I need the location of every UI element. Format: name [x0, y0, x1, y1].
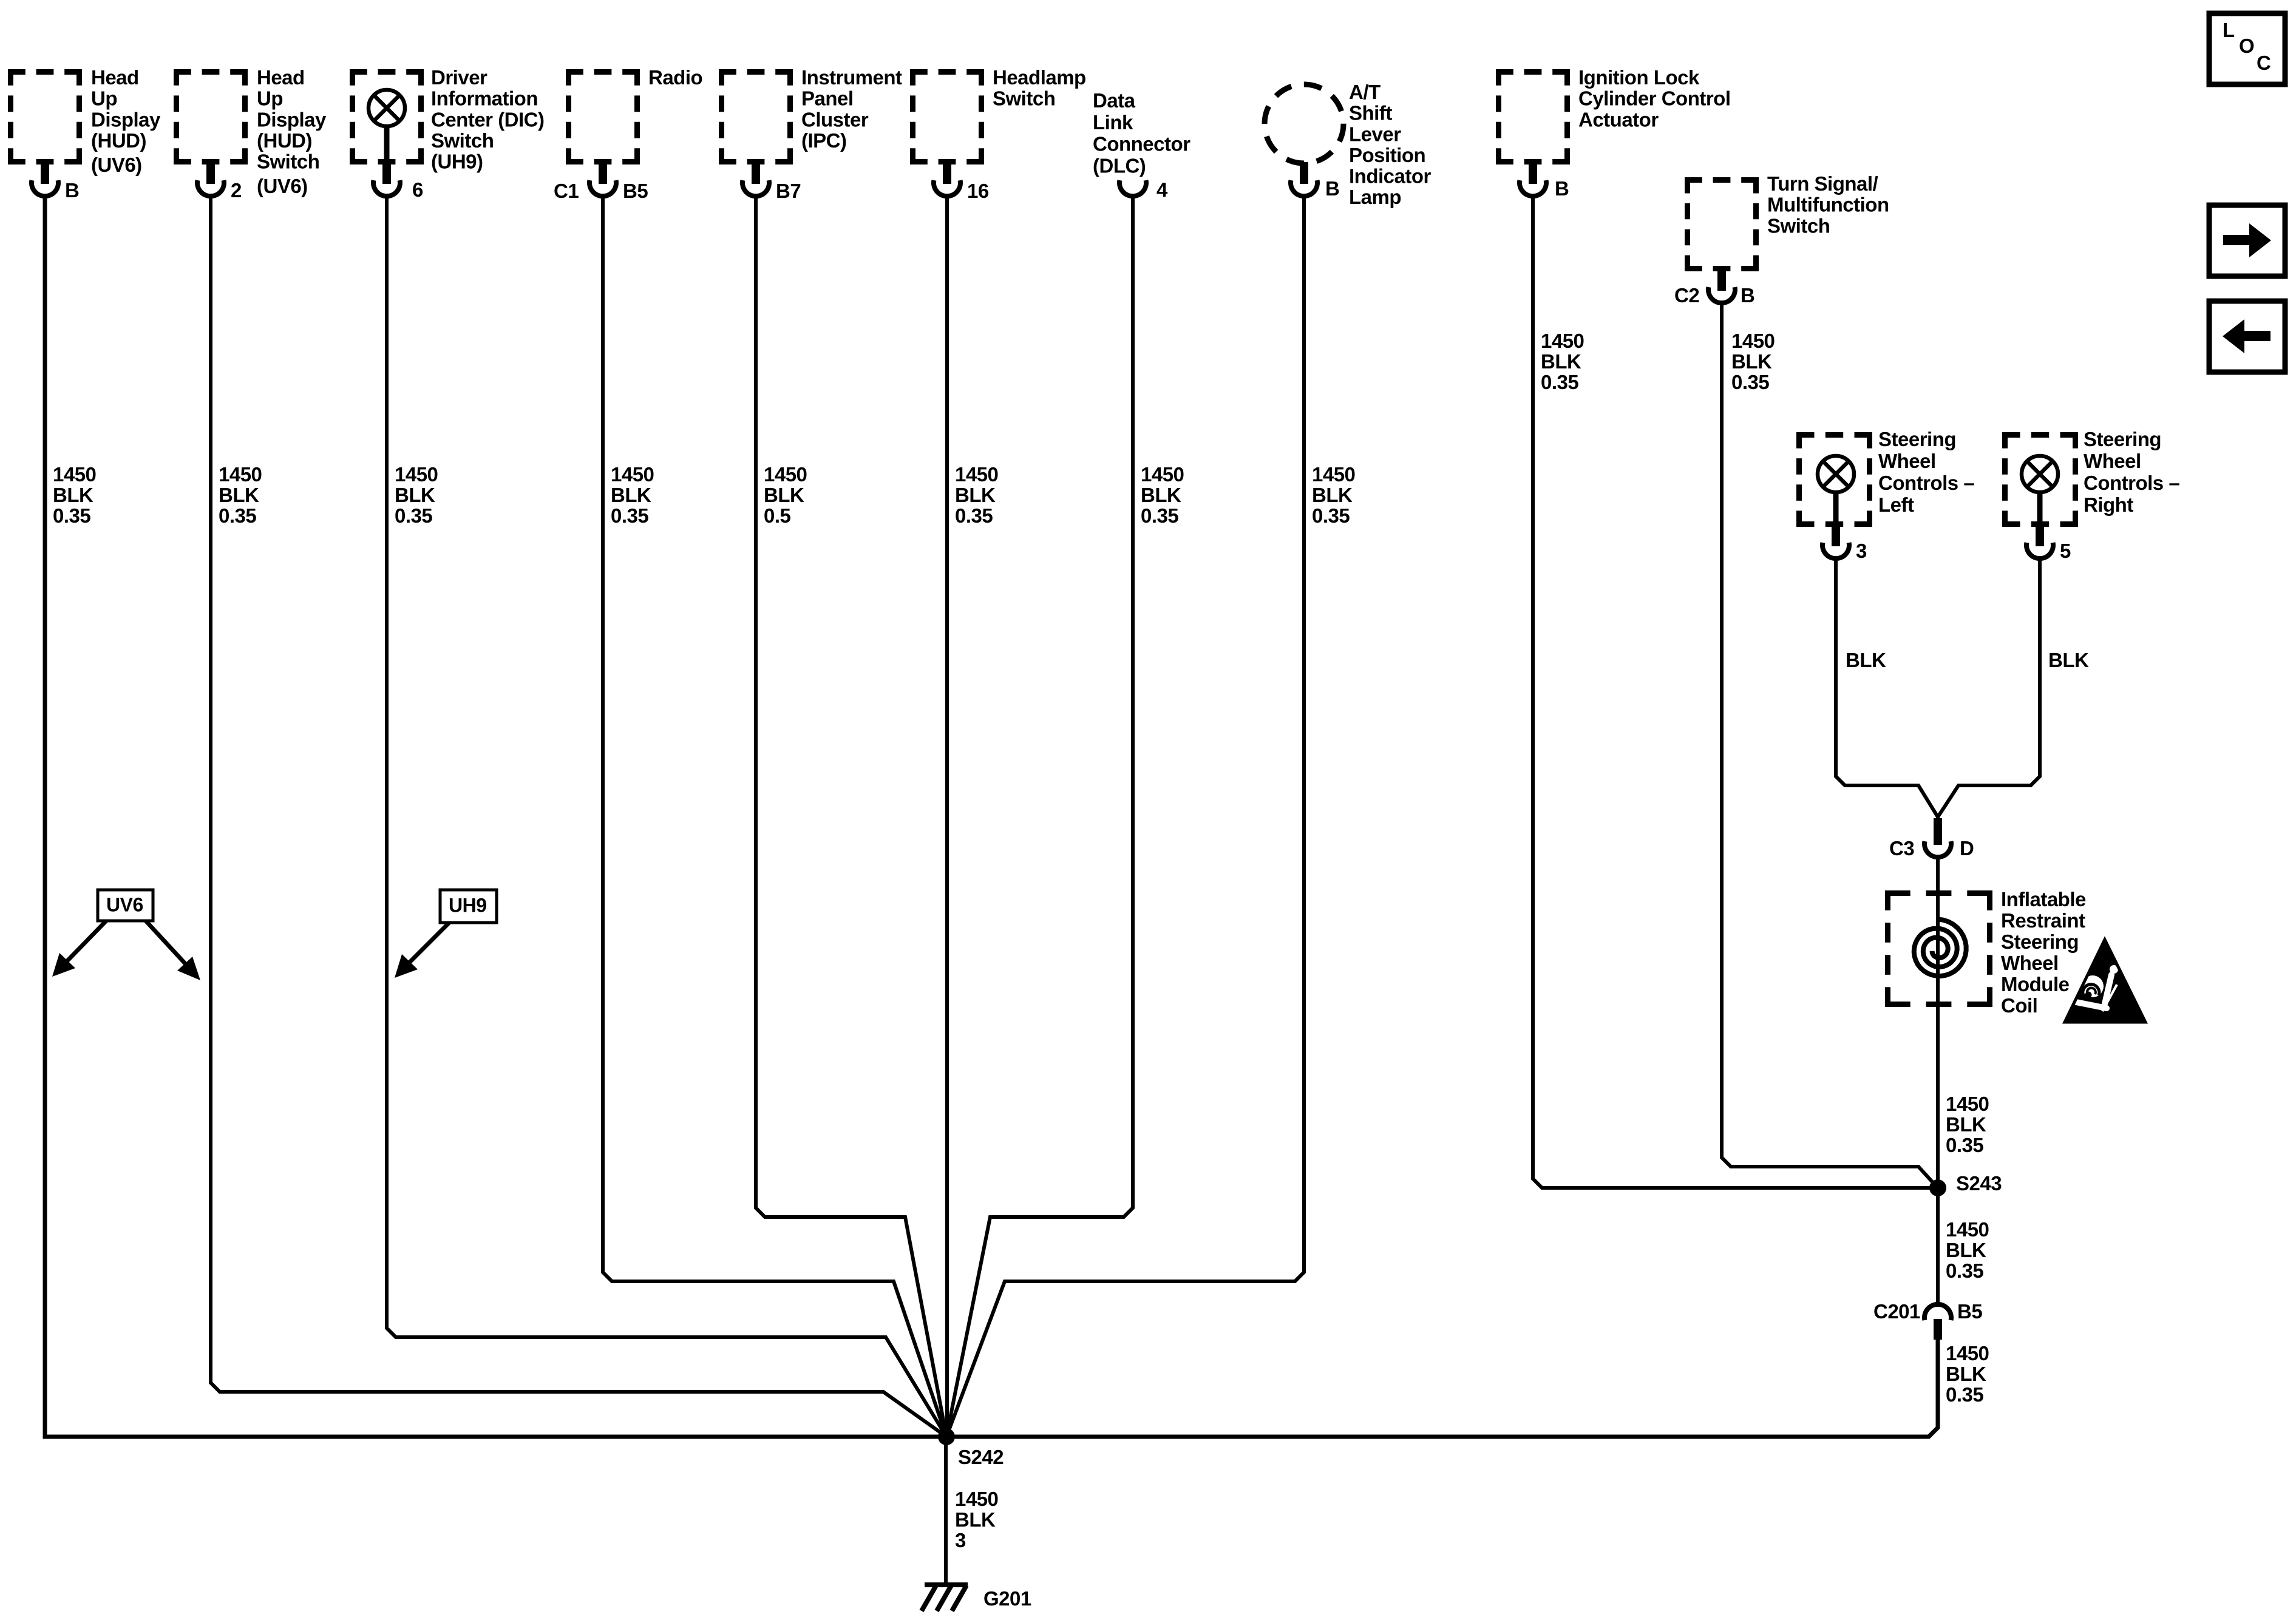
svg-text:Turn Signal/: Turn Signal/ — [1767, 172, 1878, 195]
svg-text:B5: B5 — [1957, 1300, 1982, 1323]
pin B of Ignition Lock — [1520, 160, 1546, 196]
pin label B — [65, 179, 79, 202]
svg-text:(HUD): (HUD) — [257, 129, 312, 152]
svg-text:1450: 1450 — [1312, 463, 1355, 486]
callout arrow UV6 to HUD wire — [52, 921, 106, 977]
pin 3 of left steering controls — [1822, 523, 1849, 558]
svg-text:Actuator: Actuator — [1578, 108, 1659, 131]
svg-text:1450: 1450 — [219, 463, 262, 486]
right arrow navigation box — [2209, 205, 2285, 276]
wire: DIC Switch pin 6 to S242 — [387, 197, 946, 1437]
pin label 16 — [967, 180, 989, 202]
svg-text:0.35: 0.35 — [1731, 371, 1769, 393]
svg-text:1450: 1450 — [955, 1488, 998, 1510]
svg-text:Wheel: Wheel — [1878, 450, 1936, 472]
wire label 1450 BLK 0.35 (DIC) — [395, 463, 438, 527]
svg-text:Up: Up — [91, 87, 117, 110]
svg-text:(UV6): (UV6) — [91, 154, 142, 176]
svg-text:5: 5 — [2060, 540, 2071, 562]
wire label 1450 BLK 0.35 (HUD switch) — [219, 463, 262, 527]
pin 4 of DLC — [1119, 180, 1146, 196]
pin C2-B of Turn Signal Switch — [1708, 267, 1735, 303]
wire label 1450 BLK 0.35 (Headlamp) — [955, 463, 998, 527]
callout box UV6 — [98, 890, 153, 921]
svg-text:1450: 1450 — [955, 463, 998, 486]
callout box UH9 — [440, 890, 497, 923]
svg-text:Up: Up — [257, 87, 283, 110]
svg-text:C2: C2 — [1674, 284, 1699, 307]
component box: Inflatable Restraint Steering Wheel Module Coil — [1885, 890, 1992, 1007]
pin 2 of HUD Switch — [197, 160, 224, 196]
LOC reference box — [2209, 13, 2285, 84]
svg-text:Cluster: Cluster — [801, 108, 869, 131]
svg-text:Connector: Connector — [1093, 133, 1190, 155]
svg-text:Wheel: Wheel — [2084, 450, 2141, 472]
pin label B — [1741, 284, 1754, 307]
svg-text:Position: Position — [1349, 144, 1425, 166]
lamp: A/T Shift Lever Position Indicator Lamp (dashed circle) — [1265, 84, 1343, 163]
svg-text:Indicator: Indicator — [1349, 165, 1432, 188]
wire label 1450 BLK 0.35 (Radio) — [611, 463, 654, 527]
svg-text:Switch: Switch — [431, 129, 494, 152]
svg-text:0.35: 0.35 — [395, 504, 432, 527]
svg-text:G201: G201 — [983, 1587, 1031, 1610]
svg-text:1450: 1450 — [1731, 330, 1775, 352]
pin label B5 — [623, 180, 648, 202]
pin label 4 — [1156, 178, 1168, 201]
svg-text:16: 16 — [967, 180, 989, 202]
callout arrow UV6 to HUD switch wire — [146, 921, 200, 980]
svg-text:B: B — [65, 179, 79, 202]
svg-text:BLK: BLK — [1312, 484, 1353, 506]
pin 6 of DIC switch — [373, 160, 400, 196]
ground G201 — [922, 1585, 968, 1611]
svg-text:Controls –: Controls – — [2084, 472, 2179, 494]
label Steering Wheel Controls - Left — [1878, 428, 1974, 516]
svg-text:(UV6): (UV6) — [257, 175, 308, 197]
svg-text:Controls –: Controls – — [1878, 472, 1974, 494]
svg-text:BLK: BLK — [219, 484, 259, 506]
pin label 5 — [2060, 540, 2071, 562]
svg-text:L: L — [2223, 19, 2235, 41]
label Radio — [648, 66, 702, 89]
label Steering Wheel Controls - Right — [2084, 428, 2179, 516]
svg-text:0.35: 0.35 — [1946, 1383, 1983, 1406]
wire label 1450 BLK 0.5 (IPC) — [764, 463, 807, 527]
svg-text:BLK: BLK — [1141, 484, 1181, 506]
svg-text:Cylinder Control: Cylinder Control — [1578, 87, 1731, 110]
lamp symbol inside left steering controls — [1818, 456, 1854, 527]
svg-text:Inflatable: Inflatable — [2001, 888, 2086, 910]
pin label B — [1325, 177, 1339, 200]
svg-text:1450: 1450 — [1946, 1342, 1989, 1364]
svg-text:6: 6 — [412, 178, 423, 201]
svg-text:0.35: 0.35 — [1946, 1134, 1983, 1156]
label A/T Shift Lever Position Indicator Lamp — [1349, 81, 1432, 208]
wire label 1450 BLK 0.35 (DLC) — [1141, 463, 1184, 527]
svg-text:2: 2 — [231, 179, 242, 202]
svg-text:BLK: BLK — [395, 484, 435, 506]
svg-text:C3: C3 — [1889, 837, 1914, 859]
wire: C201-B5 down and left along bus to S242 — [946, 1338, 1938, 1437]
wire: C3-D through coil module to S243 — [1936, 858, 1940, 1188]
svg-text:BLK: BLK — [2048, 649, 2089, 671]
lamp symbol inside right steering controls — [2022, 456, 2058, 527]
svg-text:Steering: Steering — [2084, 428, 2161, 450]
wire: S242 to ground G201 — [944, 1437, 948, 1585]
wire label 1450 BLK 0.35 (coil to S243) — [1946, 1093, 1989, 1156]
svg-text:0.35: 0.35 — [53, 504, 90, 527]
svg-text:1450: 1450 — [611, 463, 654, 486]
pin label C2 — [1674, 284, 1699, 307]
wire label BLK (left steering wire) — [1846, 649, 1886, 671]
svg-text:Restraint: Restraint — [2001, 909, 2085, 932]
svg-text:Coil: Coil — [2001, 994, 2037, 1017]
pin B7 of IPC — [742, 160, 769, 196]
pin label C1 — [554, 180, 579, 202]
svg-text:BLK: BLK — [53, 484, 93, 506]
svg-text:BLK: BLK — [1731, 350, 1772, 373]
svg-text:Display: Display — [257, 108, 327, 131]
connector box: Ignition Lock Cylinder Control Actuator — [1496, 69, 1570, 164]
svg-text:Multifunction: Multifunction — [1767, 194, 1889, 216]
label Driver Information Center (DIC) Switch (UH9) — [431, 66, 545, 172]
wire: S243 to C201 — [1936, 1188, 1940, 1303]
wire label 1450 BLK 0.35 (Turn signal) — [1731, 330, 1775, 393]
svg-text:C201: C201 — [1873, 1300, 1920, 1323]
connector box: Driver Information Center (DIC) Switch (UH9) — [350, 69, 424, 164]
label G201 — [983, 1587, 1031, 1610]
svg-text:Left: Left — [1878, 493, 1914, 516]
svg-text:Steering: Steering — [1878, 428, 1956, 450]
wire: HUD Switch pin 2 to S242 — [211, 197, 946, 1437]
svg-text:Radio: Radio — [648, 66, 702, 89]
pin label B5 — [1957, 1300, 1982, 1323]
svg-text:Shift: Shift — [1349, 102, 1392, 124]
wire: Radio B5 to S242 — [603, 197, 946, 1437]
label S243 — [1956, 1172, 2002, 1195]
connector box: Radio — [566, 69, 640, 164]
svg-text:Switch: Switch — [993, 87, 1055, 110]
svg-text:BLK: BLK — [1946, 1113, 1986, 1136]
wire: Y merge into connector C3 — [1936, 816, 1940, 821]
svg-text:B5: B5 — [623, 180, 648, 202]
svg-text:BLK: BLK — [955, 484, 996, 506]
wire label 1450 BLK 0.35 (S243 to C201) — [1946, 1218, 1989, 1282]
wire: IPC B7 to S242 — [756, 197, 946, 1437]
svg-text:UH9: UH9 — [449, 894, 487, 916]
connector box: Steering Wheel Controls - Left — [1796, 432, 1872, 527]
pin 16 of Headlamp Switch — [934, 160, 960, 196]
svg-text:BLK: BLK — [1946, 1363, 1986, 1385]
svg-text:C1: C1 — [554, 180, 579, 202]
label S242 — [958, 1446, 1004, 1468]
svg-text:Information: Information — [431, 87, 538, 110]
svg-text:Center (DIC): Center (DIC) — [431, 108, 545, 131]
svg-text:BLK: BLK — [611, 484, 651, 506]
svg-text:BLK: BLK — [955, 1508, 996, 1531]
svg-text:Headlamp: Headlamp — [993, 66, 1086, 89]
pin label 3 — [1856, 540, 1867, 562]
label Data Link Connector (DLC) — [1093, 89, 1190, 177]
label Inflatable Restraint Steering Wheel Module Coil — [2001, 888, 2086, 1017]
wire label BLK (right steering wire) — [2048, 649, 2089, 671]
svg-text:B: B — [1555, 177, 1569, 200]
svg-text:Ignition Lock: Ignition Lock — [1578, 66, 1700, 89]
svg-text:(DLC): (DLC) — [1093, 155, 1146, 177]
lamp symbol inside DIC switch — [369, 90, 405, 163]
svg-text:Switch: Switch — [1767, 214, 1830, 237]
connector C201-B5 — [1924, 1304, 1951, 1340]
svg-text:BLK: BLK — [1541, 350, 1581, 373]
svg-text:Driver: Driver — [431, 66, 487, 89]
svg-text:1450: 1450 — [1541, 330, 1584, 352]
label Instrument Panel Cluster (IPC) — [801, 66, 902, 152]
label Head Up Display (HUD) (UV6) — [91, 66, 161, 176]
svg-text:Lamp: Lamp — [1349, 186, 1401, 208]
wire label 1450 BLK 0.35 (A/T lamp) — [1312, 463, 1355, 527]
label Headlamp Switch — [993, 66, 1086, 110]
svg-text:Steering: Steering — [2001, 931, 2079, 953]
svg-text:0.35: 0.35 — [611, 504, 648, 527]
svg-text:1450: 1450 — [395, 463, 438, 486]
svg-text:A/T: A/T — [1349, 81, 1381, 103]
svg-text:Switch: Switch — [257, 151, 319, 173]
wire: Steering Wheel Controls Right pin 5 to C3 junction — [1938, 560, 2040, 817]
svg-text:0.35: 0.35 — [1141, 504, 1178, 527]
pin label B — [1555, 177, 1569, 200]
svg-text:Display: Display — [91, 108, 161, 131]
svg-text:Instrument: Instrument — [801, 66, 902, 89]
wire label 1450 BLK 0.35 (HUD) — [53, 463, 96, 527]
svg-text:1450: 1450 — [1946, 1218, 1989, 1241]
wire label 1450 BLK 0.35 (Ignition lock) — [1541, 330, 1584, 393]
svg-text:0.35: 0.35 — [955, 504, 993, 527]
svg-text:(IPC): (IPC) — [801, 129, 847, 152]
svg-text:0.35: 0.35 — [1541, 371, 1578, 393]
svg-text:Panel: Panel — [801, 87, 854, 110]
svg-text:0.35: 0.35 — [219, 504, 256, 527]
svg-text:B: B — [1741, 284, 1754, 307]
label Turn Signal/Multifunction Switch — [1767, 172, 1889, 237]
svg-text:B: B — [1325, 177, 1339, 200]
left arrow navigation box — [2209, 301, 2285, 372]
svg-text:BLK: BLK — [1846, 649, 1886, 671]
wire: DLC pin 4 to S242 — [946, 197, 1133, 1437]
connector C3-D — [1924, 818, 1951, 857]
svg-text:UV6: UV6 — [106, 893, 143, 915]
callout arrow UH9 to DIC wire — [395, 923, 449, 978]
svg-text:Data: Data — [1093, 89, 1136, 112]
splice S242 — [938, 1428, 955, 1445]
pin label C3 — [1889, 837, 1914, 859]
pin label B7 — [776, 180, 801, 202]
svg-text:Module: Module — [2001, 973, 2070, 995]
pin 5 of right steering controls — [2026, 523, 2053, 558]
connector box: Head Up Display (HUD) Switch (UV6) — [174, 69, 248, 164]
wire label 1450 BLK 3 (S242 to G201) — [955, 1488, 998, 1551]
connector box: Head Up Display (HUD) (UV6) — [8, 69, 82, 164]
pin label D — [1960, 837, 1974, 859]
wire label 1450 BLK 0.35 (C201 to S242) — [1946, 1342, 1989, 1406]
pin B of HUD — [32, 160, 58, 196]
svg-text:4: 4 — [1156, 178, 1168, 201]
svg-text:1450: 1450 — [1946, 1093, 1989, 1115]
connector box: Steering Wheel Controls - Right — [2002, 432, 2078, 527]
connector box: Instrument Panel Cluster (IPC) — [719, 69, 793, 164]
coil (clockspring) symbol — [1914, 920, 1966, 977]
svg-text:1450: 1450 — [53, 463, 96, 486]
svg-text:Lever: Lever — [1349, 123, 1401, 145]
wire: Turn Signal Switch C2-B to S243 — [1722, 304, 1938, 1188]
pin B of A/T lamp — [1291, 162, 1317, 196]
svg-text:D: D — [1960, 837, 1974, 859]
svg-text:0.35: 0.35 — [1312, 504, 1350, 527]
splice S243 — [1929, 1179, 1946, 1196]
svg-text:BLK: BLK — [764, 484, 804, 506]
svg-text:B7: B7 — [776, 180, 801, 202]
svg-text:(UH9): (UH9) — [431, 151, 483, 173]
svg-text:0.35: 0.35 — [1946, 1259, 1983, 1282]
svg-text:S242: S242 — [958, 1446, 1004, 1468]
wire: Steering Wheel Controls Left pin 3 to C3 junction — [1836, 560, 1938, 817]
svg-text:Head: Head — [91, 66, 139, 89]
svg-text:BLK: BLK — [1946, 1239, 1986, 1261]
svg-text:Link: Link — [1093, 111, 1133, 134]
svg-text:Head: Head — [257, 66, 305, 89]
pin label 2 — [231, 179, 242, 202]
svg-text:(HUD): (HUD) — [91, 129, 146, 152]
svg-text:1450: 1450 — [1141, 463, 1184, 486]
svg-text:Right: Right — [2084, 493, 2133, 516]
label Head Up Display (HUD) Switch (UV6) — [257, 66, 327, 197]
svg-text:O: O — [2239, 35, 2254, 57]
connector box: Turn Signal / Multifunction Switch — [1685, 177, 1759, 271]
svg-text:1450: 1450 — [764, 463, 807, 486]
svg-text:3: 3 — [1856, 540, 1867, 562]
svg-text:3: 3 — [955, 1529, 966, 1551]
wire: Headlamp Switch pin 16 to S242 — [945, 197, 949, 1437]
wire: A/T shift indicator lamp B to S242 — [946, 197, 1304, 1437]
svg-text:C: C — [2257, 52, 2271, 74]
pin label C201 — [1873, 1300, 1920, 1323]
svg-text:Wheel: Wheel — [2001, 952, 2059, 974]
wire: Head Up Display B to S242 ground bus — [45, 197, 946, 1437]
wire: Ignition Lock Cylinder B to S243 — [1533, 197, 1938, 1188]
pin C1-B5 of Radio — [589, 160, 616, 196]
pin label 6 — [412, 178, 423, 201]
airbag warning triangle — [2065, 940, 2145, 1022]
connector box: Headlamp Switch — [910, 69, 984, 164]
svg-text:0.5: 0.5 — [764, 504, 791, 527]
svg-text:S243: S243 — [1956, 1172, 2002, 1195]
label Ignition Lock Cylinder Control Actuator — [1578, 66, 1731, 131]
